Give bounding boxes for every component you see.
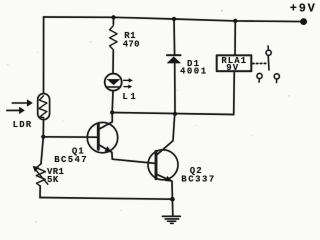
resistor R1 zigzag (110, 26, 118, 51)
svg-text:+9V: +9V (290, 2, 317, 16)
svg-text:LDR: LDR (13, 120, 33, 130)
transistor Q2 emitter with arrow (156, 174, 173, 199)
wire relay coil bottom to mid rail (233, 71, 236, 115)
wire top rail to relay coil (234, 21, 236, 55)
diode D1 (167, 55, 181, 63)
wire LED to collector junction (111, 91, 114, 113)
node LED/Q1 collector junction dot (110, 110, 114, 114)
svg-text:5K: 5K (47, 175, 59, 185)
node relay top junction dot (233, 19, 237, 23)
node R1 top junction dot (111, 15, 115, 19)
svg-text:BC337: BC337 (181, 175, 216, 185)
relay contact NC terminal right (274, 74, 279, 83)
wire Q1 emitter to Q2 base (112, 159, 156, 163)
svg-text:4001: 4001 (180, 67, 208, 77)
transistor Q1 body circle (87, 122, 117, 152)
node D1/Q2 junction dot (173, 112, 177, 116)
svg-text:9V: 9V (226, 63, 239, 73)
wire D1 anode to mid rail (174, 63, 176, 114)
LED arrow 1 (124, 78, 133, 82)
transistor Q1 collector (98, 113, 112, 130)
transistor Q2 collector (156, 114, 175, 156)
relay contact common terminal (266, 46, 271, 56)
relay contact armature (267, 56, 270, 71)
wire R1 to LED (112, 50, 114, 73)
potentiometer VR1 wiper arrow (33, 166, 48, 184)
potentiometer VR1 zigzag (36, 164, 45, 186)
wire mid horizontal rail (112, 113, 234, 115)
node D1 top junction dot (172, 17, 176, 21)
wire top supply rail (44, 17, 304, 22)
transistor Q1 base bar (97, 124, 100, 149)
LED L1 (105, 74, 122, 91)
node +9V terminal dot (300, 18, 307, 25)
node divider junction dot (41, 135, 45, 139)
wire top rail to D1 cathode (173, 19, 176, 55)
wire left rail from top rail down to LDR (43, 17, 45, 93)
wire junction down to VR1 (41, 137, 43, 164)
wire LDR bottom to divider junction (42, 120, 44, 137)
node ground junction dot (170, 197, 175, 202)
LED arrow 2 (124, 85, 132, 89)
ground (163, 199, 181, 223)
transistor Q1 emitter with arrow (98, 145, 112, 160)
relay contact NO terminal left (257, 73, 262, 82)
wire top rail to R1 (112, 17, 114, 24)
transistor Q2 base bar (155, 151, 158, 178)
LDR light arrow 1 (12, 99, 32, 106)
svg-text:BC547: BC547 (54, 155, 88, 165)
relay coil RLA1 box (217, 55, 252, 71)
wire junction to Q1 base (43, 136, 98, 138)
LDR light arrow 2 (7, 107, 25, 114)
svg-text:470: 470 (123, 39, 140, 49)
svg-text:L1: L1 (122, 92, 138, 102)
LDR body (capsule with zigzag) (38, 94, 50, 120)
transistor Q2 body circle (148, 150, 178, 180)
dotted mechanical link to contacts (253, 62, 267, 64)
wire VR1 bottom to ground rail (39, 186, 41, 198)
wire bottom rail (40, 198, 172, 200)
